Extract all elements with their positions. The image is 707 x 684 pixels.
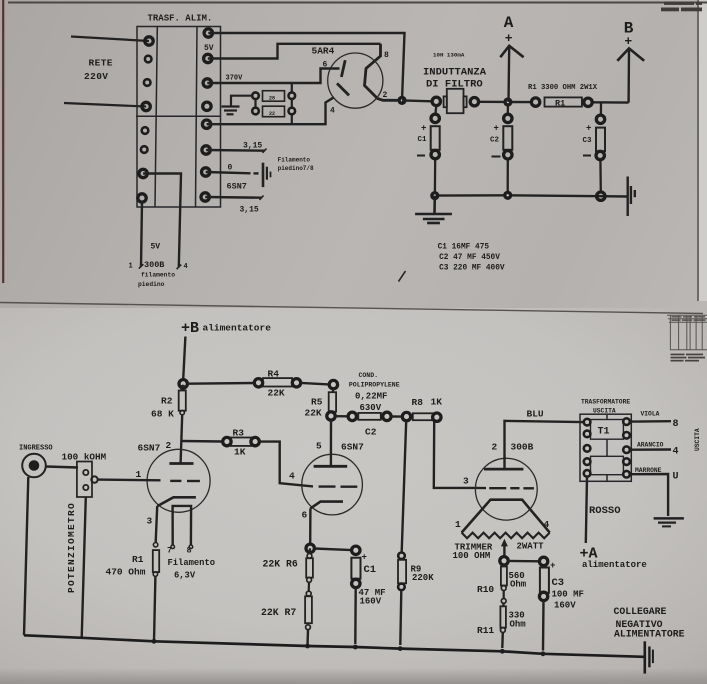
svg-text:C3: C3 (583, 137, 593, 145)
wire wiper node to C3 (508, 560, 539, 563)
svg-text:C1 16MF 475: C1 16MF 475 (438, 244, 490, 252)
svg-text:Filamento: Filamento (168, 558, 216, 568)
svg-text:6: 6 (323, 61, 328, 70)
svg-text:+B: +B (181, 320, 199, 337)
wire +B feed (183, 337, 185, 380)
svg-text:1: 1 (455, 519, 461, 530)
svg-text:INGRESSO: INGRESSO (19, 445, 53, 453)
T1 secondary terminals (623, 418, 630, 425)
wire 300B plate to T1 (BLU) (505, 421, 584, 469)
svg-text:470 Ohm: 470 Ohm (106, 567, 146, 578)
T1 primary terminals (584, 419, 591, 426)
svg-text:1K: 1K (431, 397, 443, 408)
resistor R4 22K (263, 378, 292, 386)
svg-text:POTENZIOMETRO: POTENZIOMETRO (66, 502, 77, 593)
wire jack to potentiometer (46, 467, 78, 468)
300B filament triangle (462, 500, 550, 533)
svg-text:USCITA: USCITA (694, 428, 701, 451)
wire 0V tap (206, 172, 251, 173)
node C2 ground (503, 191, 512, 200)
svg-text:+: + (421, 124, 426, 134)
svg-text:4: 4 (673, 447, 679, 458)
stray pen mark (399, 271, 406, 282)
svg-text:alimentatore: alimentatore (582, 560, 647, 570)
svg-text:5V: 5V (151, 243, 161, 252)
inductor filter choke L1 (444, 89, 467, 113)
svg-text:2: 2 (383, 91, 388, 100)
border frame right edge (697, 0, 699, 301)
capacitor C2 (47MF) (503, 106, 512, 191)
svg-text:22K: 22K (305, 408, 322, 419)
capacitor C3 100MF 160V (539, 557, 547, 565)
wire input to V1a grid (pin 1) (98, 478, 161, 481)
resistor R9 220K grid leak (402, 421, 407, 552)
svg-text:6SN7: 6SN7 (341, 442, 364, 453)
svg-text:filamento: filamento (141, 272, 175, 279)
svg-text:+: + (362, 553, 367, 563)
svg-text:3,15: 3,15 (243, 142, 262, 151)
V1b cathode (310, 502, 343, 509)
wire to heater center ground (231, 96, 252, 106)
svg-text:8: 8 (673, 419, 679, 430)
svg-text:C1: C1 (364, 564, 377, 576)
ground main filter (415, 196, 452, 223)
node B+ rectifier output (397, 96, 406, 105)
svg-text:R1: R1 (555, 98, 565, 108)
wire 3,15V winding top (206, 149, 264, 152)
capacitor C2 0,22MF 630V (348, 412, 356, 420)
V1a plate bar (169, 462, 193, 465)
wire choke to node A (479, 101, 504, 103)
border frame top edge (8, 2, 707, 4)
wire jack sleeve to ground bus (24, 477, 28, 635)
wire R4 to R5 (301, 383, 329, 385)
wire R6 to R7 (308, 582, 310, 591)
node C3 ground (541, 651, 546, 656)
wire ground bus of filter (435, 195, 627, 196)
svg-text:+: + (550, 561, 555, 571)
svg-text:piedino: piedino (138, 281, 165, 288)
svg-text:28: 28 (269, 96, 275, 102)
svg-text:DI FILTRO: DI FILTRO (426, 79, 483, 91)
wire R11 to ground bus (501, 633, 504, 649)
wire right tie down to pin4 line (291, 114, 293, 124)
node cathode V1b (306, 544, 314, 552)
svg-text:220V: 220V (84, 71, 108, 82)
ground right (chassis) (628, 177, 635, 217)
svg-text:4: 4 (544, 519, 550, 530)
hum balance terminals (252, 92, 259, 99)
svg-text:3: 3 (463, 476, 469, 487)
svg-text:alimentatore: alimentatore (203, 323, 272, 334)
wire R3 to grid of V1b (259, 442, 313, 487)
trimmer resistive track (462, 533, 550, 539)
svg-text:8: 8 (187, 546, 192, 556)
V1a cathode (157, 497, 196, 506)
svg-text:22: 22 (269, 111, 275, 117)
rectifier plate pin 4 bar (337, 83, 349, 95)
node C1 ground (353, 645, 358, 650)
resistor R2 68K (179, 391, 186, 411)
svg-text:5V: 5V (204, 44, 214, 53)
hum balance resistor 22 (263, 106, 285, 117)
svg-text:6,3V: 6,3V (174, 571, 196, 581)
output transformer T1 (580, 414, 631, 481)
svg-text:4: 4 (330, 107, 335, 116)
svg-text:COLLEGARE: COLLEGARE (614, 606, 667, 617)
svg-text:USCITA: USCITA (593, 408, 616, 415)
ground bus (bottom) (24, 635, 644, 657)
svg-text:4: 4 (184, 263, 188, 271)
svg-text:3: 3 (147, 516, 153, 527)
wire rectifier pin 4 lead (207, 97, 334, 124)
wire R1 to B corner (592, 101, 629, 104)
svg-text:1: 1 (129, 263, 133, 271)
svg-text:2: 2 (166, 440, 172, 451)
svg-text:8: 8 (384, 51, 389, 60)
rectifier 5AR4 filament/cathode (pins 8-2) (365, 44, 398, 101)
rectifier plate pin 6 bar (341, 60, 345, 77)
wire R1 to ground bus (154, 576, 155, 641)
svg-text:630V: 630V (360, 403, 382, 413)
wire MARRONE output U (631, 474, 669, 516)
svg-text:C1: C1 (418, 136, 428, 144)
svg-text:1K: 1K (234, 447, 246, 458)
resistor R10 560 Ohm (503, 564, 505, 567)
svg-text:6SN7: 6SN7 (227, 182, 247, 192)
resistor R7 22K (306, 591, 311, 596)
wire pot bottom to ground bus (82, 497, 86, 638)
svg-text:TRASF. ALIM.: TRASF. ALIM. (148, 14, 213, 24)
node R1 ground (152, 639, 157, 644)
svg-text:R1: R1 (132, 554, 144, 565)
output arrow A (500, 46, 523, 102)
node C3 ground (597, 192, 605, 200)
border frame left edge (2, 0, 4, 283)
svg-text:160V: 160V (554, 601, 576, 611)
svg-text:C3: C3 (552, 577, 565, 589)
svg-text:+: + (586, 124, 591, 134)
transformer secondary terminals (right column) (204, 29, 212, 37)
V1b grid dashes (319, 485, 358, 488)
title block tiny text (671, 316, 706, 361)
svg-text:C2: C2 (365, 427, 377, 438)
wire 300B filament 5V pin 4 (143, 174, 181, 268)
svg-text:COND.: COND. (359, 372, 379, 379)
ground negative supply (645, 641, 653, 673)
svg-text:VIOLA: VIOLA (641, 411, 660, 418)
node R9 ground (398, 646, 403, 651)
wire R7 to ground bus (306, 630, 309, 646)
power tube 300B envelope (475, 458, 537, 520)
wire V1b cathode down (309, 508, 312, 544)
capacitor C1 47MF 160V (352, 546, 360, 554)
svg-text:ALIMENTATORE: ALIMENTATORE (614, 629, 685, 640)
V1a filament (173, 506, 192, 546)
svg-text:MARRONE: MARRONE (635, 467, 662, 474)
svg-text:R1 3300 OHM 2W1X: R1 3300 OHM 2W1X (528, 84, 598, 92)
svg-text:R10: R10 (477, 584, 494, 595)
resistor R11 330 Ohm (501, 599, 506, 604)
trimmer wiper arrow (503, 545, 505, 558)
wire V1a cathode to R1 (156, 506, 158, 542)
svg-text:Ohm: Ohm (510, 580, 527, 590)
svg-text:R3: R3 (233, 428, 245, 439)
wire VIOLA output 8 (631, 420, 672, 423)
svg-text:T1: T1 (598, 427, 610, 438)
wire cathode node to C1 (314, 549, 351, 551)
wire 370V to rectifier pin 6 (207, 69, 339, 84)
svg-text:22K R7: 22K R7 (261, 607, 296, 618)
node R7 ground (305, 644, 310, 649)
svg-text:1: 1 (136, 469, 142, 480)
node wiper / cathode bias (500, 557, 508, 565)
triode V1b 6SN7 envelope (302, 454, 363, 515)
svg-text:22K R6: 22K R6 (263, 559, 298, 570)
svg-text:5AR4: 5AR4 (312, 46, 335, 57)
svg-text:220K: 220K (412, 573, 434, 583)
wire hum balance right tie (291, 99, 293, 108)
connector filament pins 7/8 (263, 163, 271, 187)
transformer TRASF.ALIM. frame (136, 27, 221, 208)
svg-text:A: A (504, 14, 514, 32)
wire ROSSO to +A (586, 477, 587, 543)
wire 3,15V winding bottom (205, 196, 261, 199)
resistor R1 470 Ohm (cathode V1a) (153, 543, 157, 547)
svg-text:370V: 370V (226, 75, 244, 83)
svg-text:300B: 300B (144, 260, 164, 270)
svg-text:0,22MF: 0,22MF (355, 392, 387, 402)
photo separator line (0, 303, 703, 314)
svg-text:10H 130mA: 10H 130mA (433, 51, 465, 58)
resistor R3 1K (231, 438, 251, 446)
wire 5V top to rectifier output (208, 33, 404, 100)
svg-text:piedino7/8: piedino7/8 (278, 165, 314, 172)
svg-text:BLU: BLU (527, 409, 544, 420)
svg-text:6SN7: 6SN7 (138, 443, 161, 454)
resistor R5 22K (329, 380, 337, 388)
node C1 ground (430, 191, 439, 200)
corner annotation text top-right (661, 2, 702, 12)
svg-text:5: 5 (316, 441, 322, 452)
svg-text:C2: C2 (490, 136, 500, 144)
wire 5V bottom to rectifier pin 8 (208, 44, 381, 59)
svg-text:R2: R2 (161, 396, 173, 407)
wire 300B filament 5V pin 1 (141, 202, 142, 267)
svg-text:68 K: 68 K (151, 409, 174, 420)
wire R2 to plate of V1a (181, 415, 183, 463)
resistor R6 22K (309, 548, 312, 553)
capacitor C1 (16MF) (431, 106, 440, 192)
svg-text:R11: R11 (477, 625, 494, 636)
wire C2 to R8 node (391, 415, 402, 418)
svg-text:160V: 160V (360, 597, 382, 607)
capacitor C3 (220MF) (596, 103, 605, 192)
svg-text:100 MF: 100 MF (552, 590, 584, 600)
wire node A to R1 (508, 101, 532, 103)
wire plate node into V1b (330, 420, 333, 466)
hum balance resistor 28 (263, 91, 285, 102)
svg-text:+: + (494, 124, 499, 134)
svg-text:ROSSO: ROSSO (589, 505, 621, 517)
output arrow B (617, 48, 644, 102)
transformer primary terminals (left column) (145, 37, 153, 45)
svg-text:3,15: 3,15 (240, 206, 259, 215)
300B grid dashes (489, 487, 534, 489)
svg-text:22K: 22K (268, 388, 285, 399)
wire plate node to R3 (181, 440, 223, 443)
svg-text:2: 2 (492, 442, 498, 453)
wire ARANCIO output 4 (631, 448, 672, 451)
svg-text:4: 4 (289, 471, 295, 482)
300B plate bar (484, 468, 523, 471)
wire B+ rail to R4 (188, 382, 255, 385)
svg-text:TRASFORMATORE: TRASFORMATORE (581, 399, 630, 406)
wire B+ bus to choke (402, 99, 432, 102)
rectifier tube 5AR4 envelope (328, 53, 383, 108)
svg-text:0: 0 (228, 164, 233, 173)
V1a grid dashes (170, 480, 200, 483)
node C2/R8/R9 (402, 412, 410, 420)
resistor R1 3300 OHM (545, 97, 582, 106)
svg-text:100 OHM: 100 OHM (453, 551, 491, 561)
svg-text:RETE: RETE (89, 58, 113, 69)
wire hum balance left tie (254, 99, 256, 108)
ground heater center (222, 107, 240, 115)
svg-text:+: + (624, 34, 632, 49)
node R11 ground (500, 649, 505, 654)
svg-text:C2 47 MF 450V: C2 47 MF 450V (439, 254, 500, 262)
wire R8 to 300B grid (434, 421, 476, 488)
svg-text:R4: R4 (268, 369, 280, 380)
svg-text:Ohm: Ohm (510, 620, 527, 630)
svg-text:U: U (673, 472, 679, 483)
wire RETE neutral (64, 103, 146, 107)
wire RETE phase (71, 37, 149, 42)
svg-text:R8: R8 (412, 397, 424, 408)
svg-text:POLIPROPYLENE: POLIPROPYLENE (349, 381, 400, 388)
svg-text:7: 7 (167, 546, 172, 556)
svg-text:ARANCIO: ARANCIO (637, 441, 664, 448)
resistor R8 1K (413, 413, 433, 420)
ground T1 secondary (654, 518, 684, 526)
title block table (667, 315, 707, 350)
svg-text:Filamento: Filamento (278, 157, 311, 164)
node B+ rail (179, 380, 187, 388)
svg-text:2WATT: 2WATT (517, 542, 545, 552)
V1b plate bar (314, 465, 348, 468)
svg-text:+: + (505, 31, 513, 46)
node V1b plate / C2 (327, 412, 335, 420)
triode V1a 6SN7 envelope (147, 449, 210, 512)
wire right tie up to 370V line (291, 83, 293, 92)
wire node to C2 (335, 415, 348, 417)
svg-text:C3 220 MF 400V: C3 220 MF 400V (439, 264, 505, 272)
svg-text:R5: R5 (311, 397, 323, 408)
svg-text:6: 6 (302, 510, 308, 521)
svg-text:INDUTTANZA: INDUTTANZA (423, 67, 487, 79)
node A tap (503, 97, 512, 106)
svg-text:300B: 300B (511, 442, 534, 453)
